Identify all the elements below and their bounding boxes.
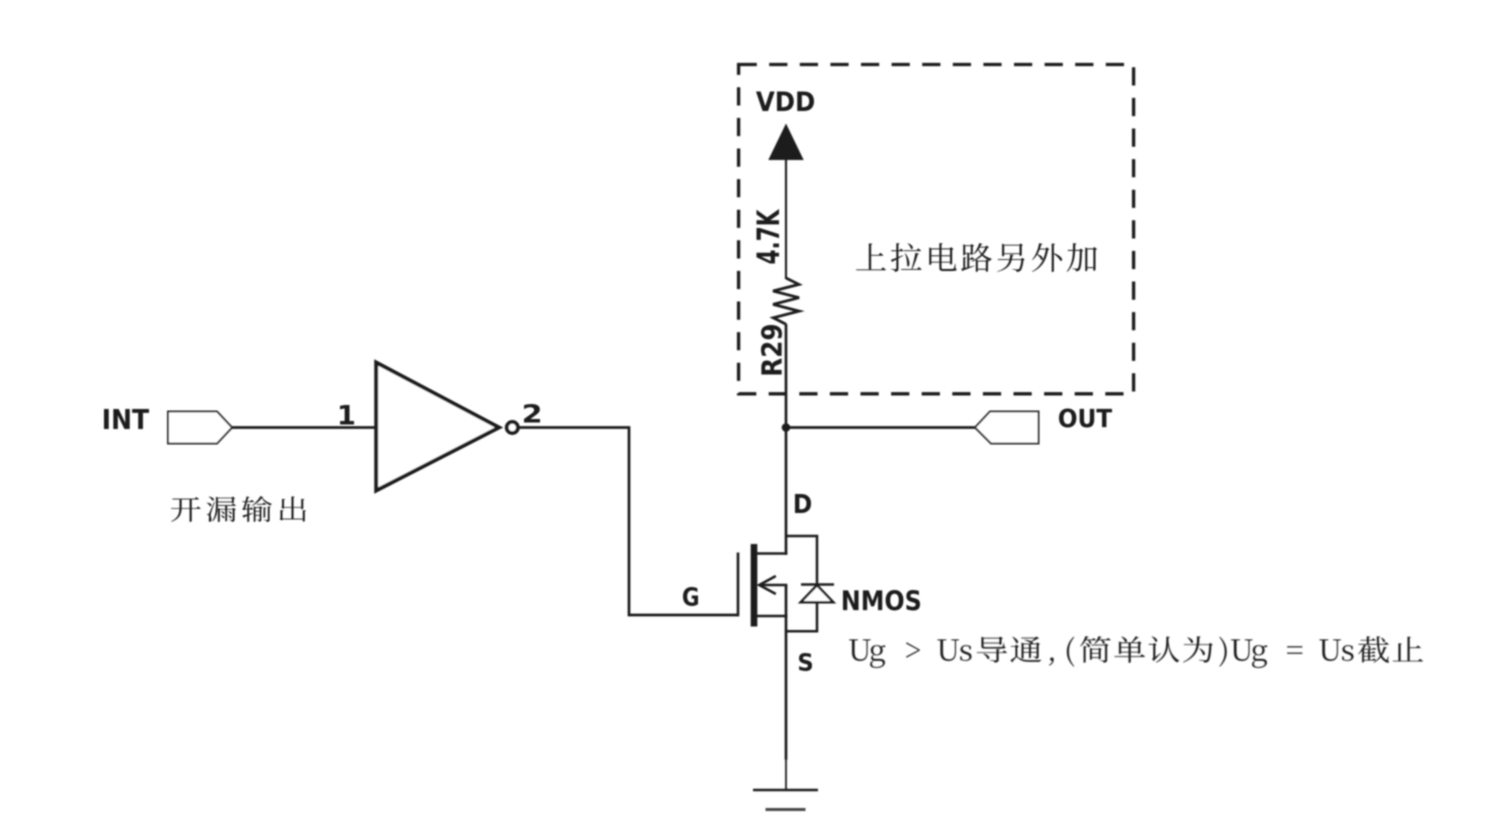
label S bbox=[799, 653, 812, 671]
nmos Q1: drain stub bbox=[755, 552, 787, 555]
body diode branch wires bbox=[786, 536, 817, 585]
power symbol VDD arrow bbox=[768, 124, 803, 161]
pin number 2 bbox=[524, 404, 540, 422]
port OUT (left-pointing tag) bbox=[975, 412, 1039, 444]
ground symbol bbox=[785, 759, 787, 790]
annotation 开漏输出 (open-drain output) bbox=[171, 496, 306, 522]
wire: inverter output to gate (elbow) bbox=[519, 428, 739, 616]
label INT bbox=[104, 409, 149, 429]
annotation 上拉电路另外加 (add external pull-up) bbox=[856, 243, 1097, 272]
body diode triangle bbox=[801, 585, 834, 602]
nmos Q1: body stub with arrow bbox=[760, 584, 788, 587]
node junction dot bbox=[782, 423, 791, 432]
refdes label R29 (rotated) bbox=[761, 325, 782, 375]
wire: resistor to drain (through node) bbox=[785, 324, 788, 555]
inverter output bubble bbox=[507, 422, 518, 433]
label OUT bbox=[1059, 409, 1112, 428]
label VDD bbox=[756, 91, 814, 111]
annotation Ug/Us conduction note bbox=[849, 636, 1423, 668]
body diode cathode bar bbox=[801, 583, 834, 586]
pin number 1 bbox=[340, 405, 354, 425]
nmos Q1: gate line bbox=[737, 553, 740, 617]
resistor R29 zigzag bbox=[773, 278, 799, 324]
dashed enclosure box (pull-up section) bbox=[739, 65, 1134, 394]
nmos Q1: source stub bbox=[755, 615, 787, 618]
wire: INT port to inverter input bbox=[232, 426, 377, 429]
label NMOS bbox=[843, 590, 920, 610]
inverter U1 triangle bbox=[376, 363, 499, 491]
label D bbox=[795, 494, 811, 513]
wire: node to OUT port bbox=[786, 426, 976, 429]
value label 4.7K (rotated) bbox=[757, 209, 779, 264]
label G bbox=[683, 587, 698, 606]
wire: VDD stem bbox=[785, 158, 787, 279]
nmos Q1: channel bar bbox=[751, 544, 758, 627]
wire: body/source down to ground bbox=[785, 585, 788, 760]
port INT (right-pointing tag) bbox=[168, 412, 232, 444]
